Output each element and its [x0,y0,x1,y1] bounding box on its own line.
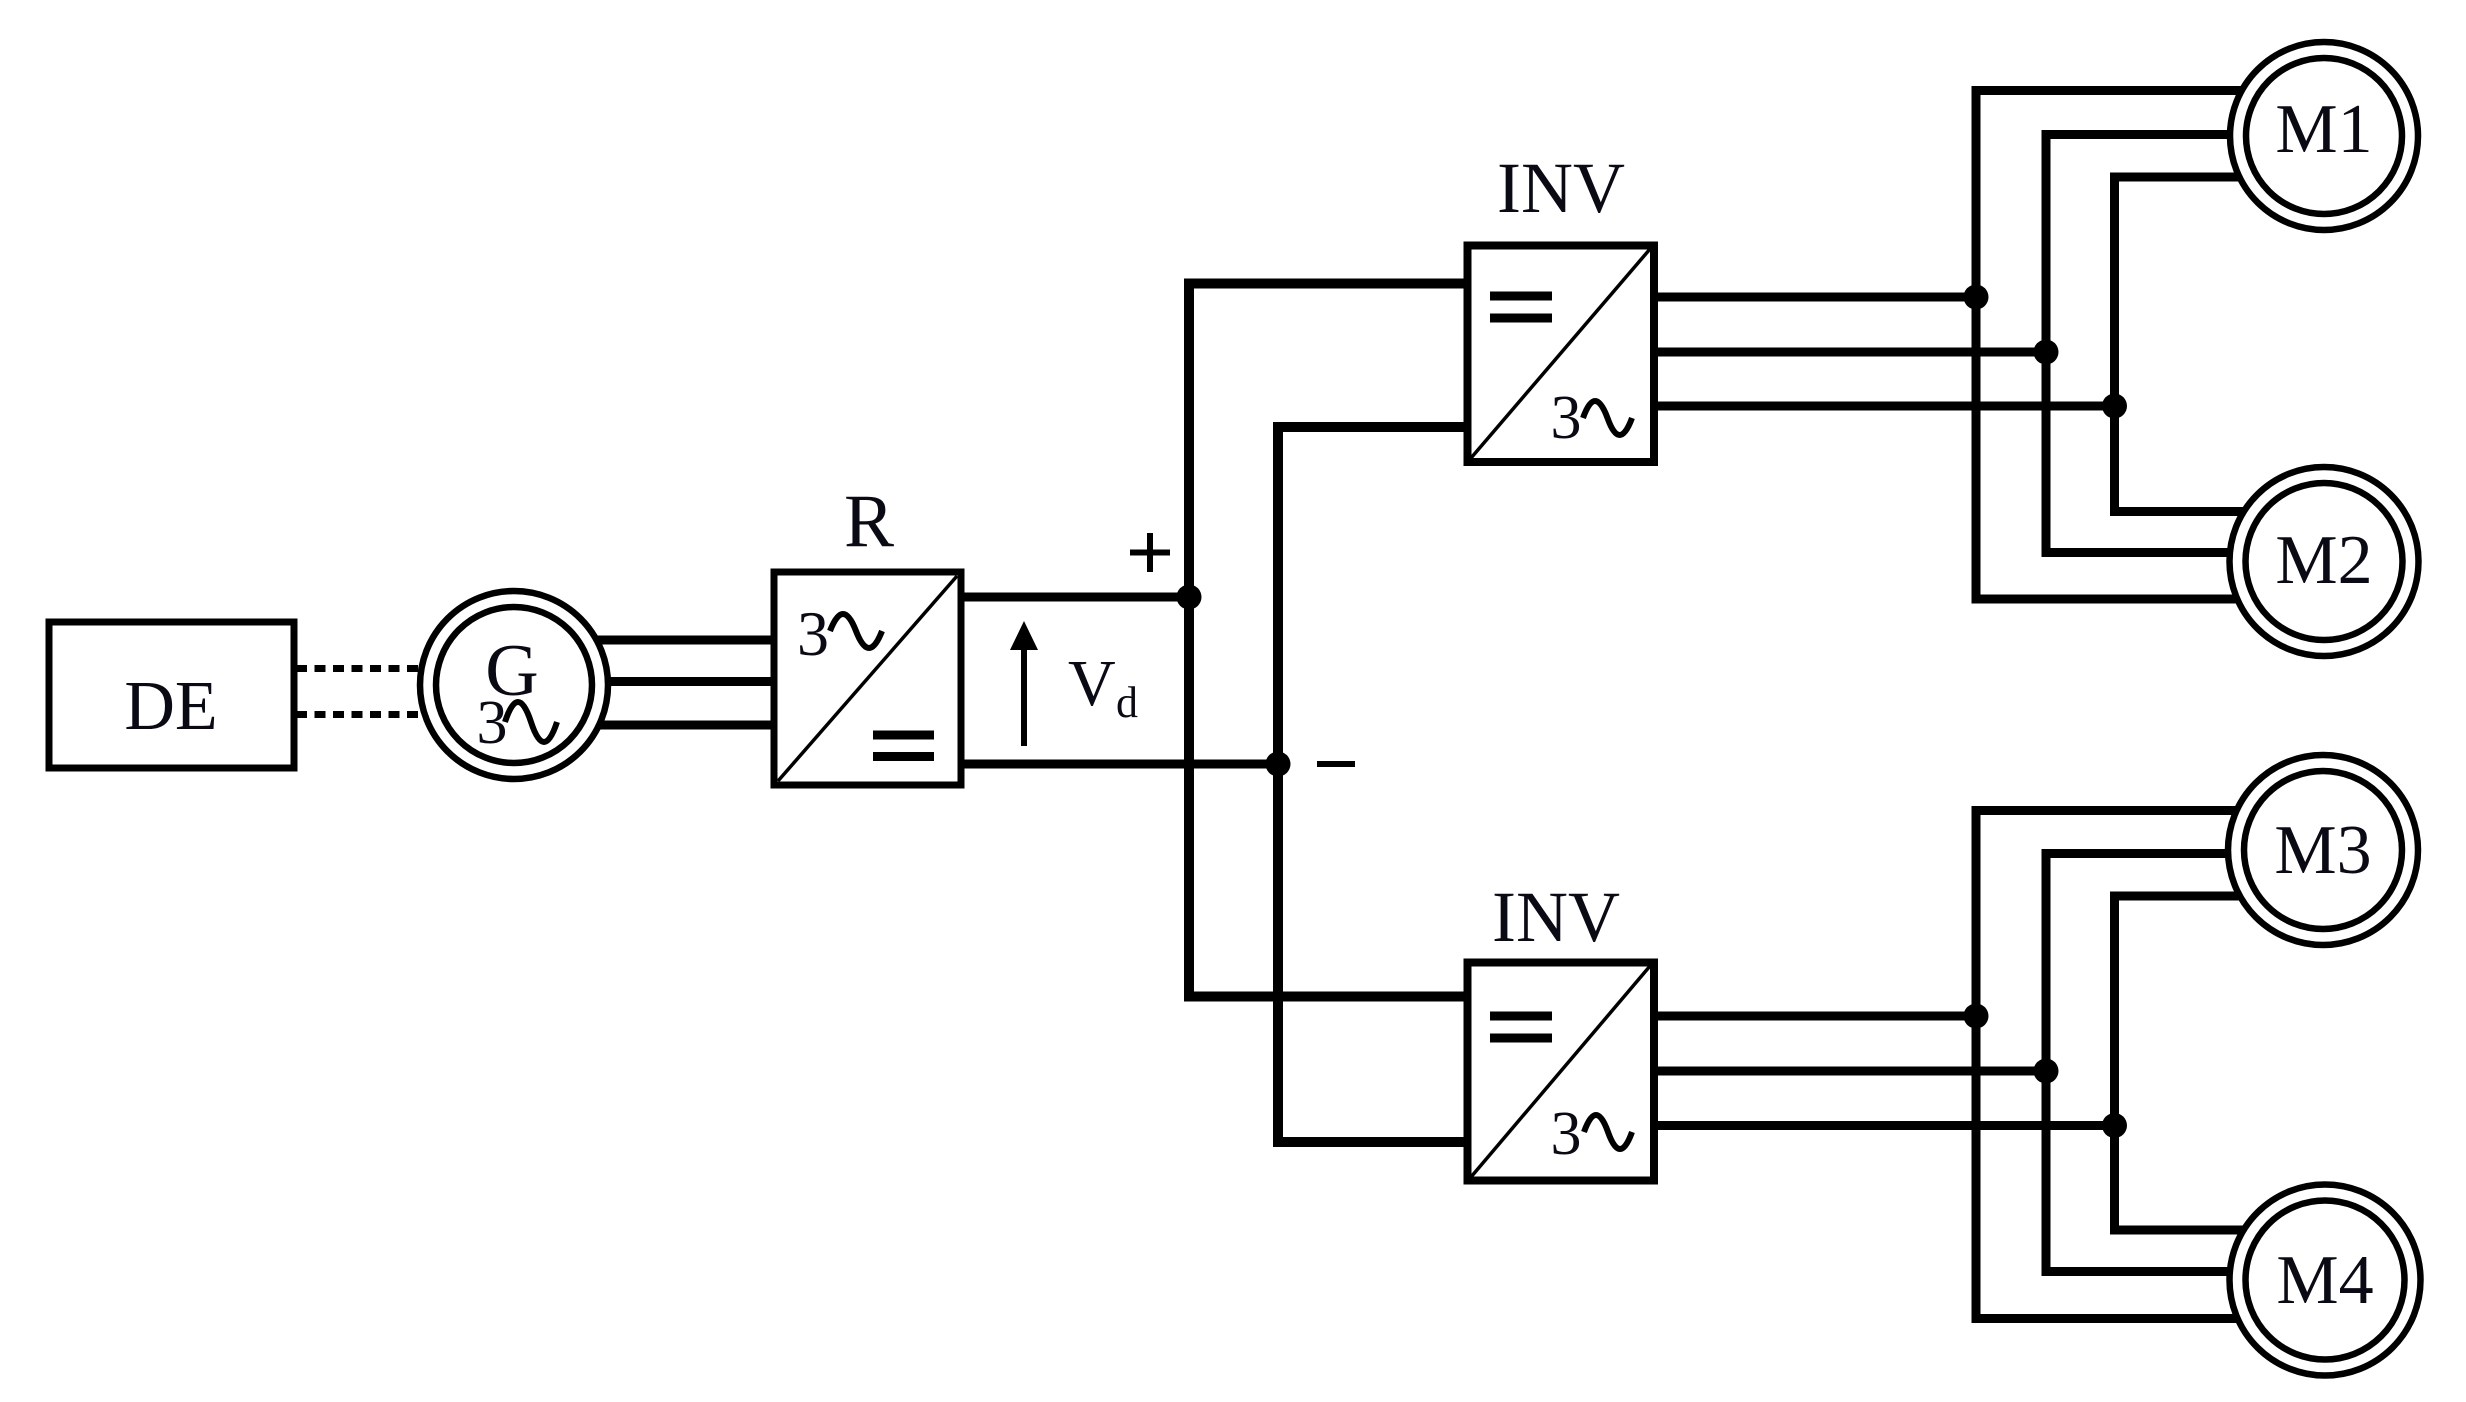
Vd arrow [1021,644,1027,746]
wire: bottom INV output phase 1 [1654,1012,1976,1021]
svg-text:3: 3 [477,689,508,757]
svg-text:3: 3 [1551,1100,1582,1168]
motor M1 inner circle [2246,58,2402,214]
wire: feeder M3a / M4c [1976,811,2324,1319]
svg-text:3: 3 [1551,384,1582,452]
junction dot top phase 2 [2034,340,2059,365]
junction dot bottom phase 2 [2034,1059,2059,1084]
label + [1130,533,1170,572]
svg-text:M2: M2 [2275,522,2372,599]
wire: DC bus + to both inverters [1189,284,1470,997]
svg-text:INV: INV [1492,877,1620,957]
dashed shaft coupling top [296,665,423,672]
wire: 3-phase G to R phase 2 [560,677,774,686]
bottom INV diagonal [1471,966,1650,1177]
svg-text:INV: INV [1497,148,1625,228]
junction dot DC - [1266,752,1291,777]
wire: feeder M3c / M4a [2115,896,2325,1230]
DC equals symbol in bottom INV [1490,1016,1552,1038]
wire: DC bus - to both inverters [1278,427,1470,1142]
svg-text:3: 3 [797,598,829,669]
wire: feeder M1c / M2a [2115,177,2325,512]
junction dot bottom phase 1 [1964,1004,1989,1029]
svg-text:R: R [844,480,894,563]
inverter INV bottom box [1468,963,1655,1181]
junction dot DC + [1177,585,1202,610]
label - [1317,761,1355,767]
motor M4 inner circle [2246,1201,2405,1360]
DC equals symbol in top INV [1490,296,1552,318]
R diagonal [778,576,957,781]
wire: 3-phase G to R phase 3 [560,721,774,730]
motor M1 outer circle [2230,42,2418,230]
junction dot top phase 1 [1964,285,1989,310]
top INV diagonal [1471,249,1650,458]
wire: bottom INV output phase 2 [1654,1067,2046,1076]
wire: feeder M1b / M2b [2046,135,2324,553]
wire: DC - from R [961,760,1278,769]
wire: DC + from R [961,593,1189,602]
sine symbol in bottom INV [1584,1115,1632,1149]
svg-text:d: d [1116,678,1138,727]
svg-text:DE: DE [124,668,217,745]
sine symbol in G [505,702,557,742]
sine symbol in top INV [1583,401,1632,435]
diesel engine DE box [49,622,294,768]
generator G outer circle [420,591,608,779]
dashed shaft coupling bottom [296,711,423,718]
svg-text:M1: M1 [2275,91,2372,168]
wire: top INV output phase 2 [1654,348,2046,357]
inverter INV top box [1468,246,1655,463]
junction dot top phase 3 [2102,394,2127,419]
wire: top INV output phase 1 [1654,293,1976,302]
wire: top INV output phase 3 [1654,402,2115,411]
rectifier R box [774,572,961,785]
motor M2 outer circle [2230,467,2419,656]
svg-text:M3: M3 [2274,812,2371,889]
motor M4 outer circle [2230,1185,2421,1376]
motor M3 outer circle [2228,755,2418,945]
wire: bottom INV output phase 3 [1654,1121,2115,1130]
wire: 3-phase G to R phase 1 [560,636,774,645]
motor M2 inner circle [2246,483,2403,640]
svg-text:M4: M4 [2276,1242,2373,1319]
svg-text:V: V [1068,647,1116,720]
junction dot bottom phase 3 [2102,1113,2127,1138]
wire: feeder M1a / M2c [1976,91,2324,600]
generator G inner circle [436,607,592,763]
DC equals symbol in R [873,735,934,757]
sine symbol in R [830,614,882,648]
wire: feeder M3b / M4b [2046,854,2324,1272]
motor M3 inner circle [2244,771,2402,929]
